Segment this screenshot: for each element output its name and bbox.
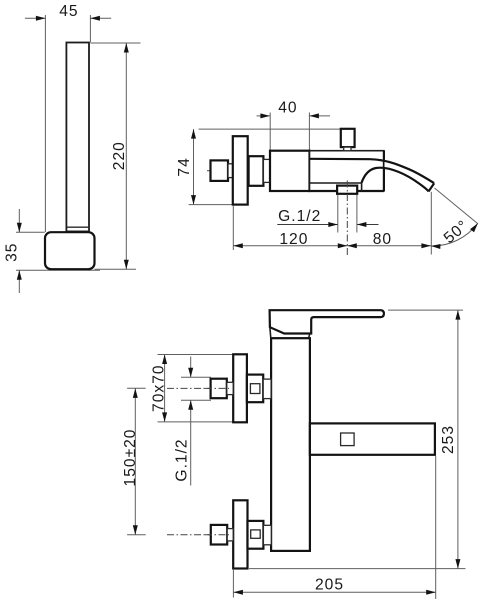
arc arrow bottom xyxy=(431,244,441,249)
svg-text:45: 45 xyxy=(59,3,78,20)
svg-text:220: 220 xyxy=(111,141,128,170)
dim 205 line xyxy=(233,591,435,593)
dim 220 arrow bottom xyxy=(124,260,129,270)
dim 80 line xyxy=(347,245,431,247)
bottom fitting inner square xyxy=(251,530,261,538)
dim 253 extension line bottom xyxy=(249,568,466,570)
hand shower handle xyxy=(66,43,89,233)
dim 253 arrow bottom xyxy=(455,559,460,569)
bottom knob centerline overlay xyxy=(205,534,229,536)
svg-text:G.1/2: G.1/2 xyxy=(278,208,321,225)
svg-text:40: 40 xyxy=(278,100,297,117)
body arm xyxy=(310,151,384,191)
dim 150+-20 tick top xyxy=(127,387,146,389)
50 degree arc xyxy=(431,223,478,246)
fitting centerline xyxy=(346,181,348,257)
G.1/2 fitting xyxy=(337,186,357,194)
fitting extension line right xyxy=(356,195,358,233)
svg-text:120: 120 xyxy=(279,231,308,248)
dim 74 extension line bottom xyxy=(189,204,233,206)
dim 35 line upper tail xyxy=(18,209,20,232)
dim 45 arrow left xyxy=(36,16,46,21)
top spacer xyxy=(263,379,271,399)
svg-text:253: 253 xyxy=(440,425,457,454)
lever handle xyxy=(270,310,384,333)
spout fill xyxy=(385,160,435,192)
svg-text:70x70: 70x70 xyxy=(150,364,167,412)
bottom spacer xyxy=(263,525,271,545)
dim G.1/2 arrow right xyxy=(357,222,367,227)
diverter stem xyxy=(344,147,351,151)
handle collar xyxy=(270,327,310,338)
mixer body xyxy=(270,151,310,191)
dim 74 arrow top xyxy=(191,129,196,139)
svg-text:74: 74 xyxy=(176,157,193,176)
shower head xyxy=(45,232,95,269)
dim 35 arrow bottom xyxy=(17,270,22,280)
fitting extension line left xyxy=(337,195,339,233)
bottom mount centerline xyxy=(167,534,228,536)
dim 253 arrow top xyxy=(455,310,460,320)
top fitting xyxy=(247,375,263,403)
dim 74 arrow bottom xyxy=(191,195,196,205)
top knob centerline overlay xyxy=(205,387,229,389)
handle ring band xyxy=(66,226,89,228)
handle knob xyxy=(211,160,229,181)
dim 80 arrow right xyxy=(421,243,431,248)
dim G.1/2 leader line xyxy=(277,224,338,226)
mixer body column xyxy=(271,338,310,551)
svg-text:G.1/2: G.1/2 xyxy=(173,438,190,481)
bottom fitting xyxy=(248,521,264,549)
spout top curve xyxy=(310,159,435,183)
top fitting inner square xyxy=(250,384,260,394)
dim G.1/2 bottom arrow bottom xyxy=(188,400,193,410)
handle knob centerline xyxy=(207,170,232,172)
wall plate xyxy=(233,136,248,204)
dim 150+-20 line xyxy=(134,388,136,534)
dim 40 extension line right xyxy=(308,113,310,151)
bottom knob stem xyxy=(227,529,233,541)
dim 220 arrow top xyxy=(124,43,129,53)
dim 220 extension line top xyxy=(90,42,140,44)
arm bottom edge thick xyxy=(308,190,384,192)
dim 40 line right tail xyxy=(309,115,330,117)
bottom escutcheon xyxy=(233,500,247,568)
spout outlet face xyxy=(429,183,435,191)
diverter knob xyxy=(341,129,355,147)
50 degree slant line xyxy=(435,188,478,224)
dim 35 arrow top xyxy=(17,223,22,233)
spout arm xyxy=(310,423,435,454)
dim G.1/2 bottom: extension line top xyxy=(181,376,211,378)
bottom knob xyxy=(211,525,227,545)
dim 120 arrow right xyxy=(338,243,348,248)
arm right edge thick xyxy=(383,151,385,191)
dim 35 line lower tail xyxy=(18,270,20,293)
dim 74 line xyxy=(193,129,195,205)
dim 45 extension line left xyxy=(44,15,46,232)
dim 80 arrow left xyxy=(347,243,357,248)
dim 70x70 arrow top xyxy=(162,355,167,365)
dim 70x70 arrow bottom xyxy=(162,412,167,422)
dim 120 extension line left xyxy=(232,206,234,250)
dim 120 line xyxy=(233,245,347,247)
top mount centerline xyxy=(167,387,228,389)
dim 220 line xyxy=(125,43,127,269)
svg-text:80: 80 xyxy=(373,231,392,248)
mounting nut xyxy=(249,156,264,186)
dim 40 arrow right xyxy=(309,113,319,118)
dim 150+-20 tick bottom xyxy=(127,534,146,536)
dim 70x70 line xyxy=(164,355,166,422)
dim 40 line left tail xyxy=(257,115,270,117)
svg-text:205: 205 xyxy=(315,577,344,594)
dim G.1/2 bottom: upper tail xyxy=(190,357,192,378)
dim 45 line left tail xyxy=(25,17,46,19)
svg-text:35: 35 xyxy=(4,243,21,262)
svg-text:150±20: 150±20 xyxy=(122,429,139,487)
dim 45 extension line right xyxy=(89,15,91,42)
dim 35 extension line bottom xyxy=(16,269,100,271)
spacer bush xyxy=(263,159,270,182)
dim 74 extension line top xyxy=(199,128,341,130)
dim 253 line xyxy=(457,310,459,568)
top escutcheon xyxy=(233,354,247,422)
dim G.1/2 bottom: extension line bottom xyxy=(181,399,211,401)
spout bottom curve xyxy=(362,168,429,192)
dim 35 extension line top xyxy=(16,231,45,233)
dim 205 arrow left xyxy=(233,590,243,595)
arc arrow top xyxy=(470,222,480,233)
dim 253 extension line top xyxy=(388,309,463,311)
dim 70x70 extension line top xyxy=(158,354,234,356)
spout tip extension line xyxy=(430,192,432,255)
dim 45 arrow right xyxy=(90,16,100,21)
arm square detail xyxy=(341,433,355,446)
dim 120 arrow left xyxy=(233,243,243,248)
dim G.1/2 bottom arrow top xyxy=(188,368,193,378)
dim G.1/2 arrow left xyxy=(328,222,338,227)
dim G.1/2 right tail xyxy=(357,224,379,226)
dim G.1/2 bottom: lower tail xyxy=(190,400,192,485)
dim 40 extension line left xyxy=(269,113,271,151)
dim 150+-20 arrow top xyxy=(133,388,138,398)
dim 70x70 extension line bottom xyxy=(158,421,234,423)
dim 45 line right tail xyxy=(90,17,111,19)
dim 150+-20 arrow bottom xyxy=(133,525,138,535)
boss platform line xyxy=(310,183,362,191)
knob stem xyxy=(228,164,233,178)
top knob stem xyxy=(227,382,233,394)
svg-text:50°: 50° xyxy=(441,217,472,247)
dim 205 extension line right xyxy=(435,456,437,599)
dim 205 arrow right xyxy=(426,590,436,595)
dim 220 extension line bottom xyxy=(95,268,137,270)
top knob xyxy=(211,379,227,399)
dim 205 extension line left xyxy=(232,570,234,598)
dim 40 arrow left xyxy=(260,113,270,118)
